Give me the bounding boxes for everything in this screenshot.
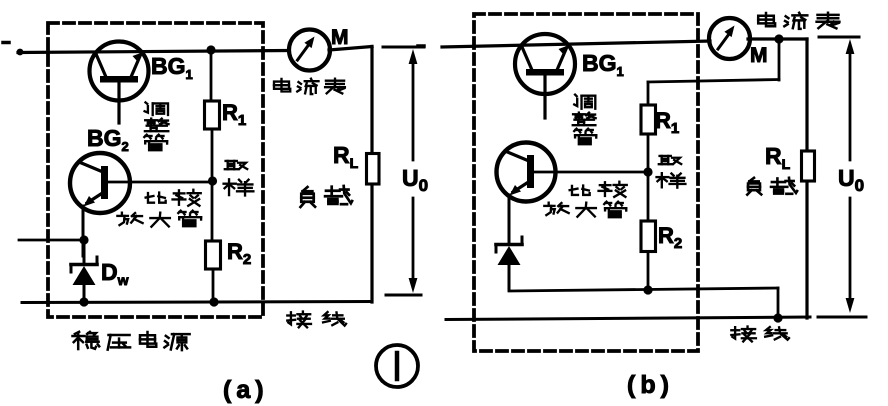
svg-text:(b): (b) bbox=[627, 371, 674, 399]
svg-text:Dw: Dw bbox=[101, 259, 129, 288]
svg-text:U0: U0 bbox=[402, 165, 428, 195]
svg-text:BG1: BG1 bbox=[151, 53, 193, 82]
svg-text:R2: R2 bbox=[227, 239, 251, 268]
svg-text:R1: R1 bbox=[655, 108, 679, 137]
svg-text:RL: RL bbox=[333, 142, 359, 171]
svg-text:BG2: BG2 bbox=[87, 125, 129, 154]
svg-text:BG1: BG1 bbox=[582, 50, 624, 79]
svg-text:RL: RL bbox=[765, 143, 791, 172]
svg-text:R2: R2 bbox=[658, 223, 682, 252]
svg-text:(a): (a) bbox=[223, 376, 269, 404]
svg-text:U0: U0 bbox=[838, 165, 864, 195]
svg-text:M: M bbox=[331, 26, 349, 49]
svg-text:R1: R1 bbox=[222, 100, 246, 129]
svg-text:M: M bbox=[750, 44, 768, 67]
